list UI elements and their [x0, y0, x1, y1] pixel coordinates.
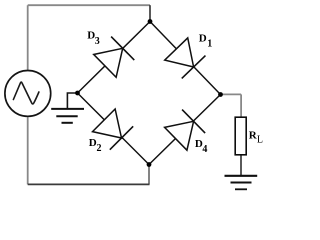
svg-text:L: L	[257, 134, 263, 145]
svg-text:2: 2	[97, 143, 102, 154]
svg-text:1: 1	[207, 39, 212, 50]
svg-text:3: 3	[95, 36, 100, 47]
svg-text:4: 4	[202, 144, 207, 155]
svg-text:D: D	[199, 33, 207, 45]
